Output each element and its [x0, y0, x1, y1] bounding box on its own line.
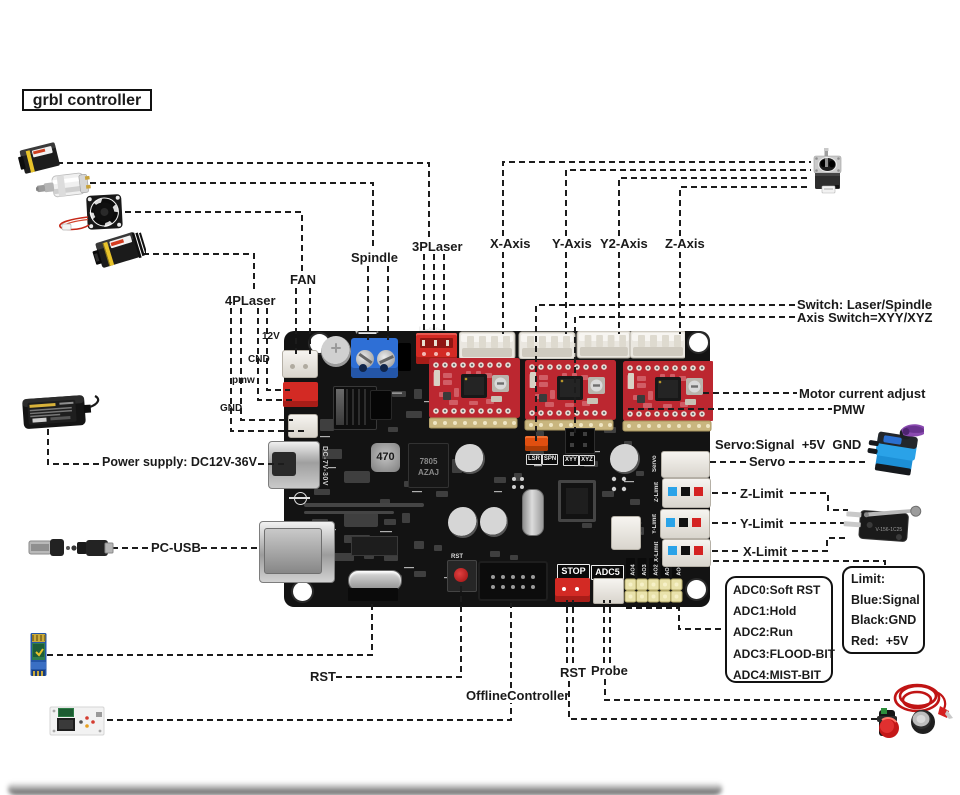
svg-text:V-156-1C25: V-156-1C25	[876, 527, 903, 533]
